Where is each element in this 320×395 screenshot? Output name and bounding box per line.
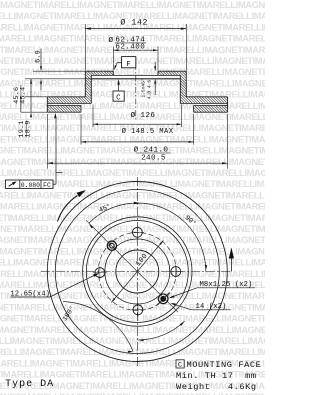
svg-text:MAGNETIMARELLIMAGNETIMARELLIMA: MAGNETIMARELLIMAGNETIMARELLIMAGNETIMAREL… xyxy=(0,156,265,167)
svg-text:MAGNETIMARELLIMAGNETIMARELLIMA: MAGNETIMARELLIMAGNETIMARELLIMAGNETIMAREL… xyxy=(0,189,265,200)
svg-text:Type DA: Type DA xyxy=(5,379,54,390)
chamfer and offset dims xyxy=(154,62,156,67)
dimension 19.1/18.9 disc thickness xyxy=(25,96,47,98)
svg-text:Ø 148.5 MAX: Ø 148.5 MAX xyxy=(122,127,174,136)
front view centerlines xyxy=(136,177,138,368)
svg-text:4.0: 4.0 xyxy=(147,91,153,100)
svg-text:MAGNETIMARELLIMAGNETIMARELLIMA: MAGNETIMARELLIMAGNETIMARELLIMAGNETIMAREL… xyxy=(0,346,265,357)
svg-text:Weight 4.6Kg: Weight 4.6Kg xyxy=(176,382,257,392)
svg-text:MAGNETIMARELLIMAGNETIMARELLIMA: MAGNETIMARELLIMAGNETIMARELLIMAGNETIMAREL… xyxy=(0,0,265,10)
tapped hole M8 (filled) at 135deg xyxy=(158,294,168,304)
datum label F xyxy=(122,57,136,68)
outer chamfer circle xyxy=(55,190,219,354)
svg-text:MAGNETIMARELLIMAGNETIMARELLIMA: MAGNETIMARELLIMAGNETIMARELLIMAGNETIMAREL… xyxy=(0,145,265,156)
dimension 6.9 hat flange thickness xyxy=(33,70,85,72)
svg-text:C: C xyxy=(178,361,182,369)
90deg angle arc xyxy=(137,203,206,272)
center bore Ø62.4 xyxy=(116,250,159,293)
45deg arc lower-right xyxy=(139,321,185,340)
svg-text:MAGNETIMARELLIMAGNETIMARELLIMA: MAGNETIMARELLIMAGNETIMARELLIMAGNETIMAREL… xyxy=(0,335,265,346)
FCF leader xyxy=(53,183,56,185)
section centerline xyxy=(135,64,137,120)
outer circle Ø241 xyxy=(47,182,227,362)
bolt circle Ø100 (dashed) xyxy=(98,233,176,311)
svg-text:MOUNTING FACE: MOUNTING FACE xyxy=(187,360,262,370)
cross-section outline xyxy=(85,70,113,72)
hat step circle xyxy=(105,239,170,304)
datum label C with leader to mounting face xyxy=(113,91,124,101)
rotation direction arrow xyxy=(58,196,78,222)
svg-text:C: C xyxy=(116,95,121,103)
dimension 45.6/45.4 overall height xyxy=(21,111,47,113)
mounting face note xyxy=(176,360,184,368)
svg-text:18.9: 18.9 xyxy=(25,120,33,137)
svg-text:6.9: 6.9 xyxy=(34,50,42,63)
svg-text:F: F xyxy=(126,61,131,69)
svg-text:MAGNETIMARELLIMAGNETIMARELLIMA: MAGNETIMARELLIMAGNETIMARELLIMAGNETIMAREL… xyxy=(0,201,265,212)
svg-text:Ø: Ø xyxy=(109,36,114,45)
svg-text:4.5: 4.5 xyxy=(147,80,153,89)
svg-text:240.5: 240.5 xyxy=(141,154,166,162)
feature control frame runout 0.080 FC xyxy=(5,180,53,188)
brake disc cross-section hatched areas xyxy=(47,71,113,103)
svg-text:MAGNETIMARELLIMAGNETIMARELLIMA: MAGNETIMARELLIMAGNETIMARELLIMAGNETIMAREL… xyxy=(0,324,265,335)
axis rotation arrow right xyxy=(230,259,232,272)
45deg angle arc xyxy=(89,203,137,223)
bolt circle Ø100 dimension xyxy=(111,241,163,303)
svg-text:MAGNETIMARELLIMAGNETIMARELLIMA: MAGNETIMARELLIMAGNETIMARELLIMAGNETIMAREL… xyxy=(0,167,265,178)
bolt holes Ø12.65 x4 xyxy=(133,227,143,237)
svg-text:Min. TH 17 mm: Min. TH 17 mm xyxy=(176,371,257,381)
svg-text:1.5x45°: 1.5x45° xyxy=(140,78,146,98)
svg-text:Ø 126: Ø 126 xyxy=(131,111,156,120)
svg-text:Ø 142: Ø 142 xyxy=(120,18,148,28)
svg-text:0.080: 0.080 xyxy=(21,182,40,189)
45deg radial line xyxy=(86,220,178,312)
svg-text:MAGNETIMARELLIMAGNETIMARELLIMA: MAGNETIMARELLIMAGNETIMARELLIMAGNETIMAREL… xyxy=(0,257,265,268)
braking band inner circles xyxy=(83,217,192,326)
180deg angle arc xyxy=(63,302,133,352)
pilot hole (double circle) at 315deg xyxy=(107,241,116,250)
svg-text:FC: FC xyxy=(43,182,51,189)
